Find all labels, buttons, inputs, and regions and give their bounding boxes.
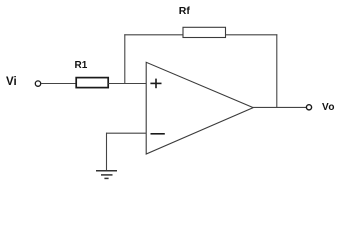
- terminal Vo: [306, 105, 311, 110]
- svg-text:R1: R1: [75, 60, 88, 71]
- svg-text:Vi: Vi: [6, 76, 17, 88]
- op-amp + input marker: [150, 79, 161, 89]
- wire - input: [106, 132, 147, 134]
- wire Rf to right leg: [226, 34, 278, 36]
- resistor R1: [76, 78, 108, 88]
- ground: [96, 171, 117, 179]
- op-amp U1 triangle: [146, 62, 253, 154]
- wire feedback right leg: [276, 34, 278, 107]
- op-amp - input marker: [151, 133, 165, 135]
- wire R1 to op-amp + input: [108, 83, 146, 85]
- wire op-amp output to Vo: [253, 106, 306, 108]
- wire Vi to R1: [41, 83, 76, 85]
- svg-text:Rf: Rf: [179, 5, 191, 17]
- wire top left to Rf: [124, 34, 183, 36]
- wire feedback left leg: [124, 34, 126, 84]
- wire to ground: [106, 133, 108, 171]
- svg-text:Vo: Vo: [322, 102, 335, 113]
- terminal Vi: [35, 81, 40, 86]
- resistor Rf: [183, 27, 226, 37]
